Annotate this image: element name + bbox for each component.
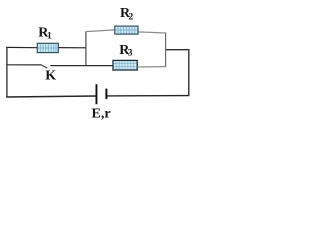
svg-text:3: 3 bbox=[128, 49, 133, 59]
node A: parallel block left vertical bbox=[85, 31, 87, 66]
wire: left vertical bbox=[6, 47, 8, 97]
svg-text:K: K bbox=[45, 69, 56, 84]
svg-text:2: 2 bbox=[129, 13, 134, 23]
battery E,r long plate bbox=[96, 84, 98, 104]
node B: parallel block right vertical bbox=[165, 33, 167, 67]
wire: top-right connector bbox=[166, 49, 190, 51]
wire: R1 branch right bbox=[58, 47, 87, 49]
battery E,r short plate bbox=[105, 89, 107, 100]
wire: R2 branch left bbox=[85, 30, 115, 32]
wire: switch branch left bbox=[6, 64, 40, 66]
switch K lever bbox=[40, 65, 47, 69]
wire: outer right vertical bbox=[188, 49, 190, 96]
svg-text:1: 1 bbox=[47, 32, 52, 42]
resistor R2 bbox=[115, 26, 138, 34]
resistor R3 bbox=[113, 60, 137, 70]
wire: R3 branch right bbox=[137, 66, 166, 68]
wire: R2 branch right bbox=[138, 32, 166, 33]
resistor R1 bbox=[37, 43, 58, 52]
wire: bottom right segment (from battery) bbox=[107, 95, 190, 97]
svg-text:E,r: E,r bbox=[92, 107, 111, 122]
wire: R1 branch left bbox=[6, 46, 37, 48]
wire: switch branch right / R3 branch left bbox=[50, 65, 113, 67]
wire: bottom left segment (to battery) bbox=[6, 96, 96, 97]
